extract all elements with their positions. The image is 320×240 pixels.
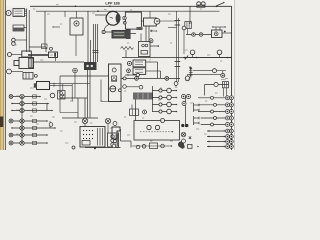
- svg-text:LPP 188: LPP 188: [105, 1, 119, 5]
